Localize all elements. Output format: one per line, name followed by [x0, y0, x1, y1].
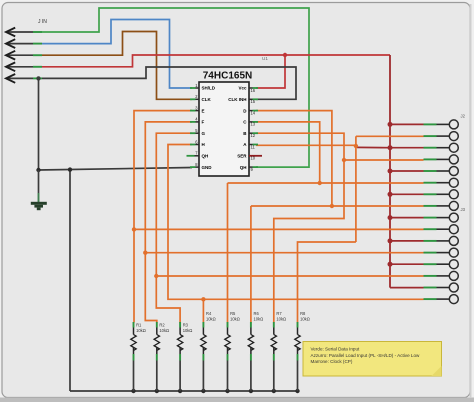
wire dark red: Vcc bus down right side: [389, 55, 391, 288]
svg-text:12: 12: [251, 133, 256, 138]
svg-text:R4: R4: [206, 311, 212, 316]
svg-text:14: 14: [251, 110, 256, 115]
U1 pin 4 F: [190, 117, 205, 125]
op IC U1 74HC165N body: [199, 56, 268, 176]
connector J1 pin 5 arrow: [6, 74, 42, 83]
resistor R6 10k: [248, 311, 263, 391]
connector J1 pin 2 arrow: [6, 39, 42, 48]
svg-text:10kΩ: 10kΩ: [159, 328, 169, 333]
U1 pin 3 E: [190, 105, 205, 113]
wire black: resistor ground bus: [70, 390, 298, 392]
svg-text:R1: R1: [136, 323, 142, 328]
wire orange F: U1 pin4 to R2 and pad row12: [145, 122, 192, 323]
svg-text:Marrone: Clock (CP): Marrone: Clock (CP): [311, 359, 353, 364]
U1 pin 5 G: [190, 128, 206, 136]
wire red: branch to U1 pin16 Vcc: [256, 55, 285, 88]
connector J3 pin 6 pad: [424, 271, 459, 280]
connector J1 pin 1 arrow: [6, 28, 42, 37]
connector J3 pin 1 pad: [424, 213, 459, 222]
connector J2 pin 5 pad: [424, 167, 459, 176]
svg-text:R6: R6: [254, 311, 260, 316]
wire orange B: U1 pin12 to R7 and pad row4: [256, 133, 344, 322]
connector J2 pin 3 pad: [424, 143, 459, 152]
svg-text:QH: QH: [202, 154, 209, 159]
wire orange D: U1 pin14 to R6 and pad row8: [256, 111, 332, 206]
connector J3 pin 5 pad: [424, 260, 459, 269]
wire black: ground down to resistor bus: [69, 170, 71, 391]
U1 pin 12 B: [243, 131, 258, 138]
svg-text:R5: R5: [230, 311, 236, 316]
svg-text:J2: J2: [461, 114, 466, 119]
svg-text:G: G: [202, 131, 206, 136]
U1 pin 15 CLK INH: [228, 97, 258, 104]
wire black: from J1 pin5 to U1 pin15 CLK INH: [42, 67, 296, 99]
svg-text:CLK: CLK: [202, 97, 212, 102]
svg-text:R8: R8: [300, 311, 306, 316]
svg-text:GND: GND: [202, 165, 213, 170]
U1 pin 13 C: [243, 120, 258, 127]
U1 pin 14 D: [243, 108, 258, 115]
resistor R1 10k: [131, 322, 146, 391]
U1 pin 7 QH: [187, 151, 209, 159]
svg-text:SER: SER: [237, 154, 247, 159]
svg-text:R3: R3: [183, 323, 189, 328]
connector J3 pin 4 pad: [424, 248, 459, 257]
svg-text:J IN: J IN: [38, 19, 47, 25]
U1 pin 2 CLK: [190, 94, 211, 102]
svg-text:10: 10: [251, 156, 256, 161]
svg-text:10kΩ: 10kΩ: [300, 316, 310, 321]
wire orange G: U1 pin5 to R3 and pad row14: [156, 133, 192, 323]
svg-text:Azzurro: Parallel Load Input (: Azzurro: Parallel Load Input (PL -SH/LD)…: [311, 353, 421, 358]
svg-text:U1: U1: [262, 56, 268, 61]
connector J3 pin 3 pad: [424, 236, 459, 245]
svg-text:10kΩ: 10kΩ: [230, 316, 240, 321]
svg-text:10kΩ: 10kΩ: [254, 316, 264, 321]
svg-text:10kΩ: 10kΩ: [136, 328, 146, 333]
U1 pin 9 QH: [240, 165, 258, 172]
svg-text:H: H: [202, 142, 205, 147]
svg-text:16: 16: [251, 88, 256, 93]
U1 pin 1 SH/LD: [190, 83, 216, 91]
svg-text:74HC165N: 74HC165N: [203, 71, 252, 82]
connector J3 pin 7 pad: [424, 283, 459, 292]
wire red: Vcc from J1 pin4: [42, 55, 390, 67]
svg-text:E: E: [202, 108, 205, 113]
connector J2 pin 2 pad: [424, 132, 459, 141]
svg-text:10kΩ: 10kΩ: [276, 316, 286, 321]
wire black: ground drop from J1 pin5 wire: [38, 78, 40, 170]
connector J2 pin 1 pad: [424, 120, 459, 129]
resistor R7 10k: [271, 311, 286, 391]
wire dark red: row3 segment left of bus: [357, 146, 390, 148]
connector J3 pin 8 pad: [424, 295, 459, 304]
connector J2 pin 6 pad: [424, 178, 459, 187]
wire orange A: U1 pin11 to R8 and pad row2: [256, 144, 356, 146]
svg-text:R2: R2: [159, 323, 165, 328]
svg-text:CLK INH: CLK INH: [228, 97, 246, 102]
connector J1 pin 3 arrow: [6, 51, 42, 60]
svg-text:Vcc: Vcc: [238, 86, 247, 91]
svg-text:SH/LD: SH/LD: [202, 86, 216, 91]
svg-text:QH: QH: [240, 165, 247, 170]
svg-text:Verde: Serial Data Input: Verde: Serial Data Input: [311, 347, 360, 352]
svg-text:13: 13: [251, 122, 256, 127]
U1 pin 11 A: [243, 142, 258, 149]
U1 pin 6 H: [190, 139, 205, 147]
ground symbol: [31, 170, 47, 210]
resistor R3 10k: [177, 322, 192, 391]
U1 pin 8 GND: [190, 162, 212, 170]
svg-text:R7: R7: [276, 311, 282, 316]
svg-text:11: 11: [251, 144, 256, 149]
connector J2 pin 7 pad: [424, 190, 459, 199]
wire green: serial data from U1 pin9 QH to J1 pin1: [42, 8, 309, 167]
U1 pin 16 Vcc: [238, 86, 258, 93]
wire brown: clock from J1 pin3 to U1 pin2 CLK: [42, 32, 192, 100]
resistor R2 10k: [154, 322, 169, 391]
svg-text:J3: J3: [461, 207, 466, 212]
wire dark red: Vcc bus stubs to odd pad rows: [390, 123, 424, 125]
svg-text:10kΩ: 10kΩ: [206, 316, 216, 321]
svg-text:F: F: [202, 120, 205, 125]
bottom shadow strip: [0, 398, 474, 402]
connector J1 pin 4 arrow: [6, 62, 42, 71]
svg-text:10kΩ: 10kΩ: [183, 328, 193, 333]
resistor R4 10k: [201, 311, 216, 391]
wire orange C: U1 pin13 to R5 and pad row6: [256, 122, 320, 183]
connector J2 pin 8 pad: [424, 201, 459, 210]
wire orange H: U1 pin6 to R4 and pad row16: [168, 145, 203, 300]
resistor R5 10k: [225, 311, 240, 391]
connector J2 pin 4 pad: [424, 155, 459, 164]
connector J3 pin 2 pad: [424, 225, 459, 234]
svg-text:15: 15: [251, 99, 256, 104]
wire black: ground to U1 pin8 GND: [39, 168, 193, 171]
resistor R8 10k: [295, 311, 310, 391]
wire orange E: U1 pin3 to R1 and pad row10: [134, 111, 192, 323]
note legend: [303, 342, 442, 377]
wire blue: parallel load SH/LD from J1 pin2 to U1 pin1: [42, 20, 192, 89]
U1 pin 10 SER: [237, 154, 262, 161]
